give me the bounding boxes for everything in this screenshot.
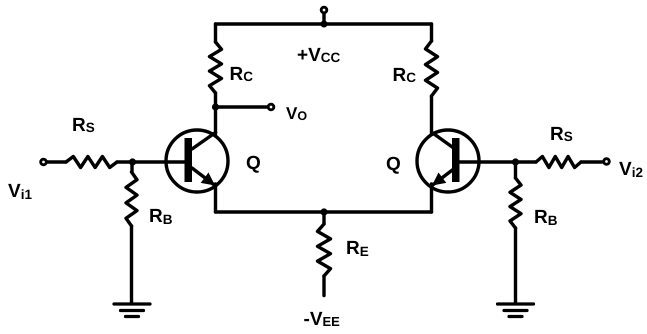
- wire Vi1 to Rs: [47, 160, 66, 163]
- transistor Q2 emitter arrow: [432, 173, 446, 186]
- svg-text:Q: Q: [246, 153, 261, 174]
- resistor Rs (right): [536, 157, 581, 168]
- wire Q2 emitter down: [430, 184, 433, 212]
- wire right collector mid: [430, 96, 433, 134]
- wire bottom rail: [216, 210, 432, 213]
- wire Rs right to Vi2 terminal: [581, 160, 602, 163]
- wire RB left to ground: [130, 226, 133, 303]
- wire base lead Q1: [117, 160, 186, 163]
- junction dot Vcc: [321, 21, 328, 28]
- resistor RB (right): [510, 178, 521, 228]
- transistor Q2 base bar: [452, 138, 460, 182]
- transistor Q1 collector lead: [192, 133, 216, 150]
- node +Vcc terminal: [321, 7, 327, 24]
- junction dot Vo tap: [212, 103, 219, 110]
- transistor Q1 emitter arrow: [201, 173, 215, 186]
- transistor Q2 body: [417, 130, 479, 192]
- node Vi1 terminal: [41, 159, 47, 165]
- wire RE bottom lead: [322, 276, 325, 296]
- transistor Q1 emitter lead: [192, 168, 215, 186]
- resistor Rc (right): [426, 41, 438, 96]
- wire Q1 emitter down: [214, 184, 217, 212]
- wire Vo tap: [216, 105, 267, 108]
- wire left collector mid: [214, 93, 217, 134]
- wire RE top lead: [322, 212, 325, 224]
- wire left collector branch top: [214, 24, 217, 42]
- resistor RB (left): [126, 172, 137, 226]
- wire top rail: [216, 22, 432, 25]
- ground (left): [114, 304, 150, 317]
- junction dot RE: [320, 208, 327, 215]
- wire RB right drop: [514, 162, 517, 178]
- wire RB left drop: [130, 162, 133, 172]
- ground (right): [498, 304, 534, 317]
- node Vi2 terminal: [604, 159, 610, 165]
- resistor Rs (left): [66, 157, 117, 168]
- wire base lead Q2: [459, 160, 516, 163]
- node Vo terminal: [268, 104, 274, 110]
- resistor Rc (left): [210, 42, 222, 93]
- resistor RE: [318, 224, 331, 276]
- transistor Q1 body: [166, 130, 228, 192]
- junction dot base-RB right: [512, 158, 519, 165]
- transistor Q2 emitter lead: [432, 168, 455, 186]
- transistor Q1 base bar: [185, 138, 193, 182]
- wire RB right to ground: [514, 228, 517, 303]
- svg-text:Q: Q: [386, 154, 401, 175]
- transistor Q2 collector lead: [432, 133, 455, 150]
- junction dot base-RB left: [129, 158, 136, 165]
- wire right collector branch top: [430, 24, 433, 41]
- wire junction to Rs right: [516, 160, 536, 163]
